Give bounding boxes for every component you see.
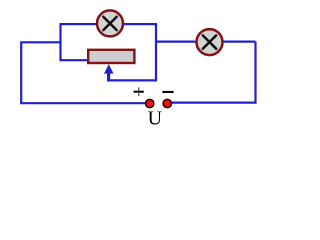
lamp L2 body [197, 29, 223, 55]
rheostat wiper arrow shaft [107, 70, 110, 80]
battery negative terminal dot [163, 99, 171, 107]
lamp L1 X mark [103, 17, 116, 30]
minus label at negative terminal [163, 91, 174, 93]
plus label at positive terminal [134, 87, 144, 96]
wire: left loop from battery + terminal up and right to node A [21, 42, 150, 103]
wire: middle branch from node A to lamp L2 and on to right vertical [155, 40, 256, 42]
lamp L2 X mark [203, 35, 216, 48]
rheostat R1 body [88, 50, 134, 63]
battery positive terminal dot [146, 99, 154, 107]
svg-text:U: U [148, 108, 163, 130]
wire: parallel-section frame (left vertical, top branch, right vertical down to wiper wire) [61, 24, 157, 80]
rheostat wiper arrowhead [104, 64, 114, 73]
lamp L1 body [97, 10, 123, 36]
wire: rheostat branch from node B to rheostat left terminal [61, 59, 91, 61]
wire: right vertical from lamp L2 down to bottom return [167, 42, 255, 103]
